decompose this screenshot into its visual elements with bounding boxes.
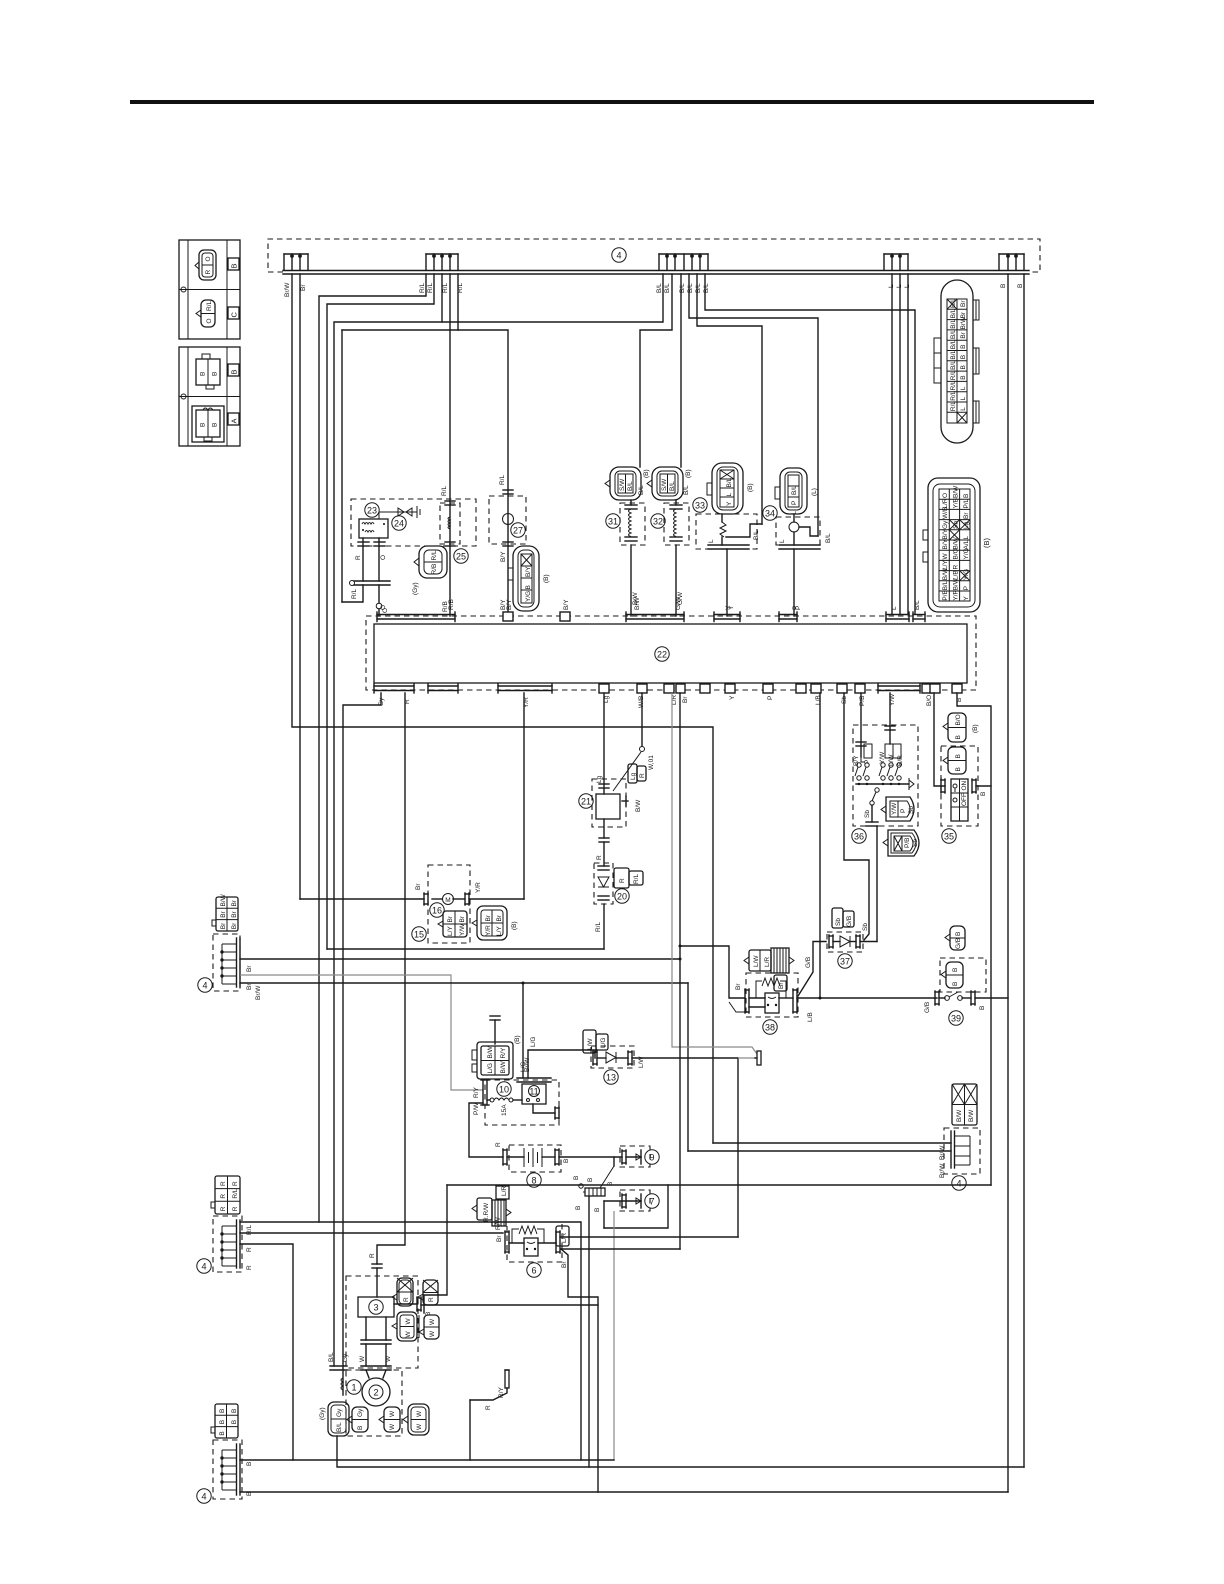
svg-text:R/L: R/L: [633, 874, 640, 885]
svg-text:R/Y: R/Y: [473, 1087, 480, 1099]
svg-text:R/Y: R/Y: [498, 1387, 505, 1399]
svg-text:(B): (B): [543, 574, 550, 583]
svg-text:B: B: [960, 375, 967, 379]
svg-text:Y/W: Y/W: [891, 802, 898, 815]
svg-text:B: B: [212, 372, 219, 376]
svg-text:Gy: Gy: [336, 1408, 343, 1417]
svg-text:Br/W: Br/W: [939, 1145, 946, 1160]
svg-text:C: C: [230, 312, 239, 318]
wire B/O from ECU to switch35: [934, 693, 945, 786]
svg-text:L: L: [960, 396, 967, 400]
svg-text:15A: 15A: [501, 1104, 508, 1116]
svg-text:B/W: B/W: [942, 567, 949, 580]
wire B/L drop a to starter: [334, 274, 663, 1366]
svg-text:B/Y: B/Y: [563, 599, 570, 610]
svg-text:L/R: L/R: [561, 1233, 568, 1243]
svg-text:B/L: B/L: [627, 481, 634, 491]
wire Gy from ECU: [343, 693, 381, 1395]
svg-text:4: 4: [616, 251, 621, 261]
svg-text:P/L: P/L: [963, 498, 970, 508]
magneto pickup 15/16: [300, 865, 524, 943]
wire R/L drop 4 fuse25: [449, 274, 451, 616]
Sb wire from ECU to diode 37: [844, 693, 869, 940]
connector L/W L/R Br: [744, 948, 794, 991]
sensor 34: [763, 468, 832, 616]
wire R from ECU to rectifier: [377, 693, 405, 1264]
wire harness dashed box 4: [268, 239, 1040, 272]
svg-text:B: B: [563, 1159, 570, 1163]
svg-text:B/L: B/L: [753, 530, 760, 540]
svg-text:B/L: B/L: [942, 580, 949, 590]
svg-text:L: L: [960, 407, 967, 411]
svg-text:27: 27: [513, 526, 523, 536]
svg-text:B: B: [955, 767, 962, 771]
svg-text:38: 38: [765, 1023, 775, 1033]
svg-text:4: 4: [201, 1492, 206, 1502]
svg-text:Y: Y: [963, 596, 970, 601]
connector (B) tall: [508, 546, 550, 611]
svg-text:R: R: [485, 1405, 492, 1410]
connector comb A: [284, 254, 308, 270]
svg-text:B/L: B/L: [726, 477, 733, 487]
svg-text:Br/W: Br/W: [255, 985, 262, 1000]
svg-text:P: P: [963, 586, 970, 590]
ignition coil 31: [605, 467, 650, 616]
wire Br to main switch: [240, 975, 483, 1090]
svg-text:W: W: [416, 1410, 423, 1417]
svg-text:R/L: R/L: [950, 401, 957, 412]
relay unit 23/24: [342, 499, 476, 616]
svg-text:OFF: OFF: [961, 793, 968, 806]
svg-text:B/L: B/L: [328, 1352, 335, 1362]
svg-text:Lg: Lg: [963, 521, 970, 529]
diode 37: [798, 908, 877, 996]
svg-text:L/G: L/G: [600, 1038, 607, 1048]
svg-text:L: L: [726, 493, 733, 497]
svg-text:B/L: B/L: [825, 533, 832, 543]
svg-text:L: L: [779, 539, 786, 543]
svg-text:P: P: [792, 606, 799, 610]
svg-text:Br: Br: [561, 1261, 568, 1268]
svg-text:B: B: [980, 792, 987, 796]
svg-text:Sb: Sb: [835, 918, 842, 926]
P/B wire from ECU: [860, 693, 862, 746]
svg-text:B/L: B/L: [950, 298, 957, 308]
svg-text:Y/R: Y/R: [485, 925, 492, 936]
svg-text:P: P: [767, 696, 774, 700]
svg-text:R: R: [205, 270, 212, 275]
svg-text:6: 6: [531, 1266, 536, 1276]
svg-text:1: 1: [351, 1383, 356, 1393]
svg-text:G/B: G/B: [924, 1002, 931, 1013]
svg-text:BrW: BrW: [960, 316, 967, 330]
svg-text:25: 25: [456, 552, 466, 562]
svg-text:Sb: Sb: [912, 839, 919, 847]
svg-text:S/W: S/W: [661, 478, 668, 491]
triangle connector PB Sb: [883, 830, 919, 856]
connector icon B: [199, 250, 216, 280]
svg-text:W: W: [385, 1355, 392, 1362]
TOPBAND: [268, 239, 1040, 297]
svg-text:R/L: R/L: [441, 486, 448, 497]
svg-text:B: B: [212, 423, 219, 427]
contacts: [855, 763, 901, 780]
svg-text:B/Y: B/Y: [942, 528, 949, 539]
wire Y/R from ECU to magneto: [523, 693, 525, 899]
svg-text:4: 4: [202, 981, 207, 991]
svg-text:P/B: P/B: [859, 696, 866, 706]
connector grid (B): [472, 906, 518, 940]
svg-text:35: 35: [944, 832, 954, 842]
svg-text:Br: Br: [447, 915, 454, 922]
svg-text:O: O: [380, 555, 387, 560]
svg-text:L/Y: L/Y: [496, 926, 503, 936]
connector comb B: [426, 254, 458, 270]
svg-text:B/Y: B/Y: [942, 538, 949, 549]
MIDTOP: [292, 274, 1024, 1492]
svg-text:L/G: L/G: [520, 1062, 527, 1072]
ECU main connector (B): [923, 478, 991, 612]
Y/W wire from ECU: [889, 693, 891, 730]
svg-text:BrW: BrW: [634, 597, 641, 611]
svg-text:B: B: [607, 1182, 614, 1186]
svg-text:4: 4: [201, 1262, 206, 1272]
svg-text:Sb: Sb: [864, 810, 871, 818]
meter connector (B): [472, 1035, 531, 1079]
connector comb D: [884, 254, 908, 270]
svg-text:L/Y: L/Y: [447, 926, 454, 936]
diode 13: [583, 1030, 645, 1084]
svg-text:R/L: R/L: [950, 370, 957, 381]
svg-text:R/L: R/L: [351, 589, 358, 600]
main switch 10/11: [473, 1078, 559, 1125]
svg-text:22: 22: [657, 650, 667, 660]
svg-text:B: B: [246, 1462, 253, 1466]
svg-text:B: B: [575, 1206, 582, 1210]
L/W wire right then down: [632, 1058, 738, 1237]
wire B/L drop c to coil32: [680, 274, 682, 467]
svg-text:B/Y: B/Y: [506, 599, 513, 610]
svg-text:L/R: L/R: [501, 1186, 508, 1196]
svg-text:B/L: B/L: [679, 283, 686, 293]
wire R/L drop 5 to fuse27: [458, 274, 508, 616]
svg-text:Br: Br: [220, 922, 227, 929]
battery R wire to main switch: [469, 1103, 503, 1157]
battery B wire to ground 9: [559, 1156, 622, 1158]
sensor 33: [693, 463, 762, 616]
svg-text:P: P: [900, 809, 907, 813]
connector grid 15: [438, 911, 467, 937]
svg-text:B: B: [955, 735, 962, 739]
svg-text:R: R: [953, 565, 960, 570]
wire L/W gray to clutch switch stub: [738, 1057, 756, 1059]
svg-text:Br: Br: [231, 899, 238, 906]
triangle connector YW P Sb: [881, 797, 915, 821]
svg-text:R: R: [220, 1194, 227, 1199]
wire L/B to brake switch: [797, 997, 937, 999]
svg-text:R: R: [403, 1297, 410, 1302]
svg-text:ON: ON: [961, 780, 968, 790]
svg-text:O: O: [942, 493, 949, 498]
svg-text:(B): (B): [643, 469, 650, 478]
svg-text:20: 20: [617, 892, 627, 902]
svg-text:L/B: L/B: [815, 695, 822, 705]
svg-text:R: R: [428, 1297, 435, 1302]
fuel pump sender assembly: [939, 1084, 980, 1190]
svg-text:Gy: Gy: [357, 1408, 364, 1417]
svg-text:Br: Br: [231, 910, 238, 917]
svg-text:L/R: L/R: [764, 957, 771, 967]
bottom long ground wires: [240, 1459, 614, 1461]
svg-text:B/Y: B/Y: [525, 566, 532, 577]
svg-text:B/L: B/L: [336, 1422, 343, 1432]
sidestand diode R/Y stub: [470, 1370, 509, 1460]
svg-text:Br: Br: [963, 512, 970, 519]
svg-text:B/L: B/L: [950, 329, 957, 339]
legend box 1 (connectors B / C): [179, 240, 240, 339]
svg-text:31: 31: [608, 517, 618, 527]
flasher relay 38: [735, 973, 814, 1034]
svg-text:O: O: [380, 605, 387, 610]
svg-text:37: 37: [840, 957, 850, 967]
svg-text:Br: Br: [220, 910, 227, 917]
svg-text:B: B: [979, 1006, 986, 1010]
svg-text:R/L: R/L: [950, 380, 957, 391]
svg-text:P: P: [791, 501, 798, 505]
svg-text:Y/G: Y/G: [525, 591, 532, 602]
svg-text:W: W: [389, 1423, 396, 1430]
svg-text:B: B: [594, 1208, 601, 1212]
connector (Gy) R/L R/B: [412, 546, 447, 595]
wire B from ECU via switch35 to fuel pump ground: [957, 693, 991, 1185]
svg-text:Br: Br: [231, 922, 238, 929]
svg-text:2: 2: [373, 1388, 378, 1398]
svg-text:B/L: B/L: [950, 349, 957, 359]
horn 6: [472, 1186, 569, 1278]
svg-text:R/L: R/L: [427, 283, 434, 294]
svg-text:B/W: B/W: [635, 799, 642, 812]
svg-text:B: B: [357, 1426, 364, 1430]
svg-text:Br/W: Br/W: [284, 282, 291, 297]
svg-text:W/B: W/B: [942, 507, 949, 519]
wire B/L drop b to coil31: [640, 274, 672, 467]
connector comb Br (4): [198, 893, 262, 1000]
horizontal R/L to diode20: [327, 948, 604, 950]
svg-text:Sb: Sb: [862, 923, 869, 931]
svg-text:B: B: [231, 1409, 238, 1413]
svg-text:B: B: [960, 365, 967, 369]
ignition coil 32: [647, 467, 692, 616]
svg-text:13: 13: [606, 1073, 616, 1083]
brake switch 39: [924, 926, 1008, 1025]
svg-text:Br: Br: [496, 914, 503, 921]
svg-text:B/W: B/W: [968, 1109, 975, 1122]
svg-text:R: R: [232, 1206, 239, 1211]
svg-text:B: B: [960, 345, 967, 349]
svg-text:L: L: [963, 536, 970, 540]
svg-text:B: B: [219, 1409, 226, 1413]
ground 7: [604, 1190, 659, 1211]
wire B/L drop e to sensor33: [697, 274, 762, 524]
svg-text:B/W: B/W: [220, 893, 227, 906]
svg-text:S/W: S/W: [619, 478, 626, 491]
svg-text:G/B: G/B: [846, 916, 853, 927]
svg-text:R/L: R/L: [206, 301, 213, 312]
svg-text:B/L: B/L: [950, 339, 957, 349]
svg-text:W: W: [359, 1355, 366, 1362]
ECU box 22: [374, 624, 967, 683]
svg-text:B/W: B/W: [500, 1060, 507, 1073]
battery 8: [495, 1142, 570, 1187]
starter motor wires W W: [365, 1317, 367, 1340]
svg-text:A/L: A/L: [963, 539, 970, 549]
svg-text:B/Y: B/Y: [500, 551, 507, 562]
svg-text:Y: Y: [726, 501, 733, 506]
wire Br left drop: [299, 274, 301, 899]
B wire from relay: [394, 1303, 417, 1305]
svg-text:(B): (B): [747, 483, 754, 492]
wire WJ01: [641, 693, 643, 746]
diode 20: [594, 863, 643, 949]
svg-text:Br: Br: [960, 300, 967, 307]
svg-text:(Gy): (Gy): [412, 582, 419, 595]
svg-text:Br: Br: [485, 914, 492, 921]
svg-text:Br: Br: [735, 983, 742, 990]
svg-text:W: W: [405, 1331, 412, 1338]
svg-text:B: B: [952, 982, 959, 986]
svg-text:L: L: [891, 606, 898, 610]
svg-text:B: B: [952, 968, 959, 972]
wire R/L drop 1: [319, 274, 426, 1222]
svg-text:R.R/W: R.R/W: [483, 1202, 490, 1222]
svg-text:B/L: B/L: [914, 600, 921, 610]
svg-text:B: B: [1017, 284, 1024, 288]
svg-text:B: B: [230, 263, 239, 268]
svg-text:B/L: B/L: [703, 283, 710, 293]
svg-text:B: B: [955, 932, 962, 936]
svg-text:Br/W: Br/W: [939, 1163, 946, 1178]
svg-text:36: 36: [854, 832, 864, 842]
fuse 27: [489, 475, 526, 611]
wires L to ECU: [891, 274, 893, 614]
svg-text:B/L: B/L: [950, 308, 957, 318]
svg-text:B: B: [230, 369, 239, 374]
svg-text:B: B: [219, 1420, 226, 1424]
svg-text:23: 23: [367, 506, 377, 516]
svg-text:(B): (B): [511, 921, 518, 930]
starter relay 3: [346, 1253, 598, 1370]
svg-text:B: B: [200, 372, 207, 376]
main bus wire: [283, 270, 1029, 272]
fuel pump ground line: [447, 1184, 991, 1186]
svg-text:P/B: P/B: [904, 838, 911, 848]
wire B/L drop d to sensor34: [689, 274, 818, 536]
svg-text:7: 7: [649, 1197, 654, 1207]
svg-text:L/W: L/W: [753, 955, 760, 967]
svg-text:39: 39: [951, 1014, 961, 1024]
svg-text:32: 32: [653, 517, 663, 527]
svg-text:M: M: [445, 897, 450, 904]
svg-text:B/W: B/W: [487, 1045, 494, 1058]
svg-text:B/L: B/L: [687, 283, 694, 293]
svg-text:8: 8: [531, 1176, 536, 1186]
ECU bottom pin bars: [374, 684, 552, 693]
wire B/L drop f to ECU: [705, 274, 915, 614]
ECU dashed boundary: [366, 616, 976, 690]
horn wires: [560, 1236, 738, 1238]
svg-text:R/L: R/L: [595, 922, 602, 933]
wire B right 1: [1007, 274, 1009, 1492]
connector icon C: [201, 300, 215, 327]
svg-text:R: R: [596, 855, 603, 860]
connector above 35: [948, 713, 966, 742]
wire Br/W to meter conn: [240, 982, 688, 984]
svg-text:Lg: Lg: [630, 772, 637, 780]
svg-text:Br: Br: [459, 915, 466, 922]
svg-text:Gy: Gy: [342, 1353, 349, 1362]
wire Br branch to flasher relay: [680, 946, 745, 998]
handlebar switch left 35: [941, 713, 979, 843]
svg-text:R/L: R/L: [232, 1188, 239, 1199]
svg-text:B/W: B/W: [953, 485, 960, 498]
wire B right 2: [1023, 274, 1025, 1467]
ECU top labels: [380, 596, 921, 610]
svg-text:B/L: B/L: [669, 481, 676, 491]
svg-text:P/W: P/W: [473, 1102, 480, 1115]
RIGHTCONN: [923, 280, 991, 612]
svg-text:B: B: [955, 754, 962, 758]
svg-text:W: W: [942, 553, 949, 560]
svg-text:B: B: [963, 494, 970, 498]
svg-text:B: B: [1000, 284, 1007, 288]
svg-text:(L): (L): [811, 488, 818, 496]
harness label 4: [612, 248, 626, 262]
MIDDLE: [198, 693, 1008, 1395]
ground 9: [620, 1146, 659, 1167]
handlebar switch right 36: [852, 693, 919, 856]
svg-text:11: 11: [529, 1087, 538, 1097]
svg-text:B: B: [219, 1431, 226, 1435]
connector icon B2: [196, 359, 220, 385]
svg-text:R: R: [369, 1253, 376, 1258]
svg-text:B/L: B/L: [638, 485, 645, 495]
svg-text:R: R: [232, 1181, 239, 1186]
svg-text:(B): (B): [982, 538, 991, 549]
svg-text:(Gy): (Gy): [319, 1407, 326, 1420]
svg-text:L: L: [960, 386, 967, 390]
svg-text:B: B: [200, 423, 207, 427]
svg-text:B/L: B/L: [664, 283, 671, 293]
svg-text:B: B: [587, 1178, 594, 1182]
svg-text:Br: Br: [246, 983, 253, 990]
svg-text:16: 16: [432, 906, 442, 916]
svg-text:9: 9: [649, 1153, 654, 1163]
svg-text:Br: Br: [960, 331, 967, 338]
svg-text:Br: Br: [682, 696, 689, 703]
svg-text:B/L: B/L: [791, 485, 798, 495]
wire Br/W left drop: [292, 274, 713, 1143]
svg-text:Sb: Sb: [953, 521, 960, 529]
svg-text:B/O: B/O: [955, 714, 962, 725]
switch to Sb: [875, 788, 879, 792]
svg-text:Y/W: Y/W: [459, 923, 466, 936]
svg-text:W: W: [429, 1318, 436, 1325]
svg-text:W,01: W,01: [648, 755, 655, 770]
svg-text:R/L: R/L: [950, 390, 957, 401]
svg-text:21: 21: [581, 797, 591, 807]
diode unit 21: [579, 693, 655, 866]
starter motor 2 and pickup coil 1: [328, 1352, 402, 1436]
